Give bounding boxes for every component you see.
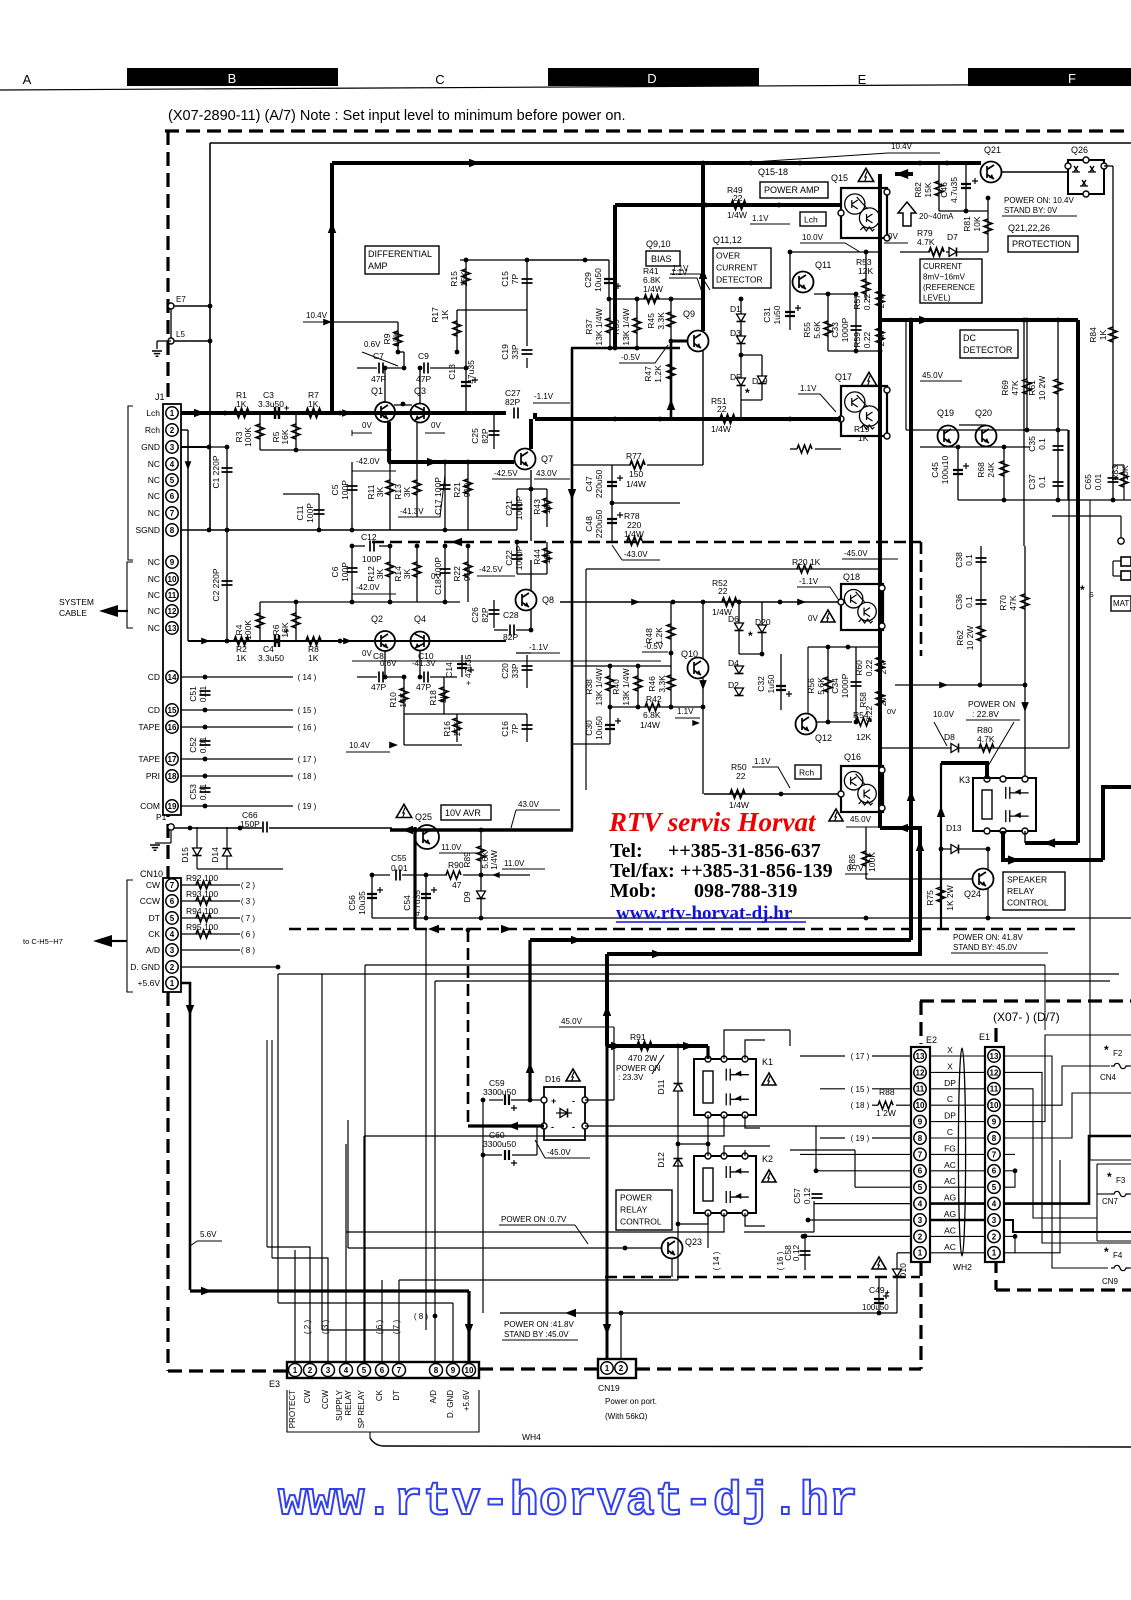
svg-text:0.01: 0.01 xyxy=(1093,473,1103,490)
svg-text:6: 6 xyxy=(380,1366,385,1375)
dashed border D/7 bottom xyxy=(996,1288,1131,1291)
10.4V rail vertical xyxy=(330,163,334,413)
svg-text:7P: 7P xyxy=(510,723,520,734)
svg-text:A/D: A/D xyxy=(429,1390,438,1404)
svg-text:Q23: Q23 xyxy=(685,1237,702,1247)
svg-text:D14: D14 xyxy=(210,847,220,863)
svg-text:K1: K1 xyxy=(762,1057,773,1067)
svg-text:C48: C48 xyxy=(584,516,594,532)
svg-text:C32: C32 xyxy=(756,676,766,692)
svg-text:R88: R88 xyxy=(879,1087,895,1097)
P1 wire xyxy=(174,827,262,829)
svg-text:TAPE: TAPE xyxy=(138,722,160,732)
svg-text:C55: C55 xyxy=(391,853,407,863)
svg-text:C14: C14 xyxy=(444,662,454,678)
Q1 emitter thick wire xyxy=(387,422,391,462)
box 10V AVR xyxy=(441,805,491,820)
rail y974 xyxy=(278,973,1119,975)
svg-text:(With 56kΩ): (With 56kΩ) xyxy=(605,1412,648,1421)
svg-text:CURRENT: CURRENT xyxy=(716,263,758,273)
svg-text:8: 8 xyxy=(170,526,175,535)
svg-text:5: 5 xyxy=(918,1183,923,1192)
svg-text:0.22: 0.22 xyxy=(862,293,872,310)
svg-text:Q9,10: Q9,10 xyxy=(646,239,671,249)
svg-text:1/4W: 1/4W xyxy=(643,284,663,294)
svg-text:C28: C28 xyxy=(503,610,519,620)
svg-text:11.0V: 11.0V xyxy=(441,843,462,852)
E2 pin 6 xyxy=(914,1165,926,1177)
dashed riser to -45V bus xyxy=(467,930,470,1127)
J1 pin 1 Lch xyxy=(166,407,178,419)
svg-text:R38: R38 xyxy=(584,679,594,695)
svg-text:C49: C49 xyxy=(869,1285,885,1295)
svg-text:: 23.3V: : 23.3V xyxy=(618,1073,644,1082)
svg-text:AMP: AMP xyxy=(368,261,388,271)
svg-text:8: 8 xyxy=(434,1366,439,1375)
rail y965 xyxy=(365,964,1045,966)
thick feed to K3 coil xyxy=(941,763,987,779)
svg-text:D12: D12 xyxy=(656,1152,666,1168)
svg-text:Tel/fax: ++385-31-856-139: Tel/fax: ++385-31-856-139 xyxy=(610,860,833,882)
svg-text:F4: F4 xyxy=(1113,1251,1123,1260)
svg-text:4.7K: 4.7K xyxy=(977,734,995,744)
svg-text:R54: R54 xyxy=(853,710,869,720)
svg-text:( 18 ): ( 18 ) xyxy=(298,772,317,781)
CN19 riser xyxy=(606,1046,609,1359)
svg-text:WH2: WH2 xyxy=(953,1262,972,1272)
R50 bus xyxy=(704,793,841,795)
svg-text:-1.1V: -1.1V xyxy=(534,392,554,401)
svg-text:7: 7 xyxy=(170,881,175,890)
svg-text:AC: AC xyxy=(944,1160,956,1170)
svg-text:100P: 100P xyxy=(362,554,382,564)
svg-text:16K: 16K xyxy=(280,622,290,637)
svg-text:1u50: 1u50 xyxy=(772,305,782,324)
svg-text:*: * xyxy=(1107,1170,1112,1184)
dc area frame xyxy=(906,429,1068,431)
svg-text:C51: C51 xyxy=(188,686,198,702)
E2 pin7 left wire xyxy=(800,1153,911,1155)
svg-text:10.4V: 10.4V xyxy=(891,142,913,151)
svg-text:C29: C29 xyxy=(583,272,593,288)
svg-text:4: 4 xyxy=(992,1199,997,1208)
svg-text:R84: R84 xyxy=(1088,327,1098,343)
svg-text:AC: AC xyxy=(944,1242,956,1252)
svg-text:10u50: 10u50 xyxy=(594,716,604,740)
drop x278 lower xyxy=(277,974,279,1303)
svg-text:DT: DT xyxy=(392,1390,401,1401)
E3 pin 6 xyxy=(376,1364,389,1377)
svg-text:C9: C9 xyxy=(418,351,429,361)
J1 bracket pins 9-13 xyxy=(127,562,133,628)
svg-text:Q11: Q11 xyxy=(815,260,831,270)
thick to edge connector xyxy=(1103,787,1131,860)
svg-text:PRI: PRI xyxy=(146,771,160,781)
svg-text:4: 4 xyxy=(170,460,175,469)
J1 pin 2 Rch xyxy=(166,424,178,436)
svg-text:R15: R15 xyxy=(449,271,459,287)
svg-text:6: 6 xyxy=(170,492,175,501)
svg-text:3: 3 xyxy=(170,443,175,452)
speaker terminals xyxy=(1121,557,1131,566)
svg-text:13: 13 xyxy=(168,624,177,633)
R91 bus thick xyxy=(607,1044,708,1048)
svg-text:14: 14 xyxy=(168,673,177,682)
svg-text:CN9: CN9 xyxy=(1102,1277,1119,1286)
J1 pin 10 NC xyxy=(166,573,178,585)
svg-text:10.4V: 10.4V xyxy=(306,311,328,320)
thick out bottom K3 xyxy=(1003,831,1103,860)
svg-text:K3: K3 xyxy=(959,775,970,785)
svg-text:TAPE: TAPE xyxy=(138,754,160,764)
svg-text:3K: 3K xyxy=(375,568,385,579)
bus to Q7 xyxy=(389,460,514,464)
WH4 curve xyxy=(369,1432,371,1438)
svg-text:2: 2 xyxy=(308,1366,313,1375)
svg-text:( 19 ): ( 19 ) xyxy=(851,1134,870,1143)
thick rail to K3 right xyxy=(1025,841,1078,845)
dashed border right riser to E2 xyxy=(919,1262,922,1369)
svg-text:1K 2W: 1K 2W xyxy=(945,885,955,911)
svg-text:Q15: Q15 xyxy=(831,173,848,183)
svg-text:15K: 15K xyxy=(923,182,933,197)
E1 pin 3 xyxy=(988,1214,1000,1226)
cn10 arrow xyxy=(93,935,112,947)
svg-text:24K: 24K xyxy=(986,462,996,477)
svg-text:10: 10 xyxy=(168,575,177,584)
svg-text:R77: R77 xyxy=(626,451,642,461)
svg-text:*: * xyxy=(745,386,750,400)
CN10 bracket xyxy=(127,880,133,992)
svg-text:0V: 0V xyxy=(431,421,441,430)
svg-text:R39: R39 xyxy=(611,319,621,335)
svg-text:47K: 47K xyxy=(1008,595,1018,610)
svg-text:2: 2 xyxy=(992,1232,997,1241)
Q10 collector drop xyxy=(702,602,704,658)
svg-text:-1.1V: -1.1V xyxy=(799,577,819,586)
svg-text:Q15-18: Q15-18 xyxy=(758,167,788,177)
svg-text:3: 3 xyxy=(326,1366,331,1375)
svg-text:COM: COM xyxy=(140,801,160,811)
svg-text:POWER ON: 10.4V: POWER ON: 10.4V xyxy=(1004,196,1074,205)
svg-text:PROTECT: PROTECT xyxy=(288,1390,297,1428)
E1 pin11 wire xyxy=(1003,1089,1097,1218)
svg-text:D16: D16 xyxy=(545,1074,561,1084)
svg-text:F2: F2 xyxy=(1113,1049,1123,1058)
E1 pin7 wire xyxy=(1003,1153,1015,1155)
E1 pin12 wire xyxy=(1003,1072,1131,1243)
svg-text:C: C xyxy=(435,72,444,87)
Q12 cell top rail xyxy=(808,646,880,648)
svg-text:13K 1/4W: 13K 1/4W xyxy=(594,308,604,345)
svg-text:0.12: 0.12 xyxy=(791,1244,801,1261)
J1 pin 16 TAPE xyxy=(166,721,178,733)
E3 pin9 drop xyxy=(452,1303,454,1363)
svg-text:47P: 47P xyxy=(371,682,386,692)
header bar F xyxy=(968,68,1131,86)
box MAT xyxy=(1111,596,1131,611)
svg-text:( 14 ): ( 14 ) xyxy=(712,1251,721,1270)
right rail verticals xyxy=(1023,320,1025,546)
svg-text:PROTECTION: PROTECTION xyxy=(1012,239,1071,249)
svg-text:to C-H5~H7: to C-H5~H7 xyxy=(23,937,63,946)
svg-text:R95 100: R95 100 xyxy=(186,922,218,932)
E1 pin1 wire xyxy=(1015,1160,1060,1253)
svg-text:1/4W: 1/4W xyxy=(711,424,731,434)
svg-text:AG: AG xyxy=(944,1193,956,1203)
dashed border CN19 to corner xyxy=(636,1367,921,1370)
svg-text:Rch: Rch xyxy=(145,425,160,435)
dashed border E3 to CN19 xyxy=(479,1367,598,1370)
svg-text:( 19 ): ( 19 ) xyxy=(298,802,317,811)
E1 pin 2 xyxy=(988,1230,1000,1242)
vertical from C9 to R15 rail xyxy=(465,260,467,368)
svg-text:5.6K: 5.6K xyxy=(816,677,826,695)
vertical bias rail xyxy=(701,163,705,331)
svg-text:11.0V: 11.0V xyxy=(504,859,525,868)
ground at L5 xyxy=(156,341,158,349)
svg-text:0.1: 0.1 xyxy=(964,596,974,608)
svg-text:1K: 1K xyxy=(308,653,319,663)
svg-text:R68: R68 xyxy=(976,462,986,478)
svg-text:STAND BY: 45.0V: STAND BY: 45.0V xyxy=(953,943,1018,952)
svg-text:D9: D9 xyxy=(462,891,472,902)
J1 pin 17 TAPE xyxy=(166,753,178,765)
svg-text:C: C xyxy=(947,1127,953,1137)
svg-text:CW: CW xyxy=(146,880,160,890)
svg-text:R92 100: R92 100 xyxy=(186,873,218,883)
svg-text:(X07- ) (D/7): (X07- ) (D/7) xyxy=(993,1010,1060,1024)
dashed border E1 top stub xyxy=(994,1028,997,1046)
svg-text:R61: R61 xyxy=(1027,380,1037,396)
svg-text:( 15 ): ( 15 ) xyxy=(298,706,317,715)
svg-text:( 7 ): ( 7 ) xyxy=(392,1320,401,1335)
svg-text:11: 11 xyxy=(916,1085,925,1094)
svg-text:13K 1/4W: 13K 1/4W xyxy=(621,668,631,705)
E1 pin13 wire to CN9 riser xyxy=(1003,1056,1108,1268)
svg-text:FG: FG xyxy=(944,1143,956,1153)
left drop from R20 wire xyxy=(585,569,587,790)
svg-text:0V: 0V xyxy=(362,649,372,658)
svg-text:NC: NC xyxy=(148,475,160,485)
svg-text:C47: C47 xyxy=(584,476,594,492)
svg-text:R89: R89 xyxy=(462,852,472,868)
svg-text:45.0V: 45.0V xyxy=(561,1017,583,1026)
svg-text:-0.5V: -0.5V xyxy=(621,353,641,362)
diode D8 wire xyxy=(880,747,1069,749)
CURRENT reference box xyxy=(920,259,982,303)
connector J1 outline xyxy=(163,404,181,815)
top 10.4V bus xyxy=(332,161,981,165)
svg-text:D. GND: D. GND xyxy=(446,1390,455,1418)
svg-text:7P: 7P xyxy=(510,273,520,284)
bias top rail xyxy=(609,298,703,300)
svg-text:22: 22 xyxy=(718,586,728,596)
connector E2 outline xyxy=(911,1047,930,1262)
A/D wire hook 8 xyxy=(181,949,240,951)
svg-text:( 8 ): ( 8 ) xyxy=(414,1312,429,1321)
CN10 pin 6 CCW xyxy=(166,895,178,907)
Rch bus xyxy=(188,640,506,642)
J1 pin 14 CD xyxy=(166,671,178,683)
svg-text:OVER: OVER xyxy=(716,251,740,261)
wire E7 to ground rail xyxy=(174,305,210,307)
svg-text:R69: R69 xyxy=(1000,380,1010,396)
svg-text:C33: C33 xyxy=(830,322,840,338)
svg-text:9: 9 xyxy=(170,558,175,567)
svg-text:11: 11 xyxy=(168,591,177,600)
E1 pin 7 xyxy=(988,1148,1000,1160)
K2 bottom wires xyxy=(707,1213,709,1248)
svg-text:Rch: Rch xyxy=(799,768,814,778)
svg-text:1: 1 xyxy=(293,1366,298,1375)
svg-text:R94 100: R94 100 xyxy=(186,906,218,916)
svg-text:4.7u35: 4.7u35 xyxy=(949,177,959,203)
svg-text:3300u50: 3300u50 xyxy=(483,1139,516,1149)
svg-text:R56: R56 xyxy=(806,678,816,694)
dashed border bottom-left to E3 xyxy=(168,1369,287,1372)
svg-text:R60: R60 xyxy=(854,660,864,676)
svg-text:-45.0V: -45.0V xyxy=(844,549,868,558)
svg-text:3.3K: 3.3K xyxy=(656,312,666,330)
dashed border top xyxy=(165,129,1131,132)
svg-text:*: * xyxy=(1104,1245,1109,1259)
svg-text:0.6V: 0.6V xyxy=(364,340,381,349)
svg-text:R82: R82 xyxy=(913,182,923,198)
svg-text:1000P: 1000P xyxy=(840,317,850,342)
svg-text:C38: C38 xyxy=(954,552,964,568)
svg-text:0.1: 0.1 xyxy=(964,554,974,566)
svg-text:L5: L5 xyxy=(176,330,185,339)
svg-text:J1: J1 xyxy=(155,392,165,402)
svg-text:12: 12 xyxy=(916,1068,925,1077)
rail y981 xyxy=(435,980,1110,982)
svg-text:6: 6 xyxy=(918,1167,923,1176)
svg-text:2: 2 xyxy=(170,426,175,435)
svg-text:GND: GND xyxy=(141,442,160,452)
E1 pin 6 xyxy=(988,1165,1000,1177)
POWER ON 41.8 thick wire xyxy=(412,929,414,939)
E1 pin 13 xyxy=(988,1050,1000,1062)
wires to speaker xyxy=(1120,516,1122,538)
E2 pin 7 xyxy=(914,1148,926,1160)
svg-text:DC: DC xyxy=(963,333,976,343)
C29 rail xyxy=(530,259,609,261)
svg-text:3: 3 xyxy=(170,946,175,955)
J1 pin 13 NC xyxy=(166,622,178,634)
svg-text:C: C xyxy=(947,1094,953,1104)
svg-text:1: 1 xyxy=(170,409,175,418)
svg-text:R37: R37 xyxy=(584,319,594,335)
svg-text:D: D xyxy=(647,71,656,86)
svg-text:1K: 1K xyxy=(440,309,450,320)
E1 pin 9 xyxy=(988,1115,1000,1127)
svg-text:( 17 ): ( 17 ) xyxy=(298,755,317,764)
svg-text:16K: 16K xyxy=(280,429,290,444)
dc detector outline xyxy=(905,320,907,430)
svg-text:A: A xyxy=(23,72,32,87)
svg-text:LEVEL): LEVEL) xyxy=(923,294,951,303)
connector CN10 outline xyxy=(163,878,181,992)
svg-text:+5.6V: +5.6V xyxy=(462,1389,471,1411)
J1 pin 5 NC xyxy=(166,474,178,486)
svg-text:0V: 0V xyxy=(808,614,818,623)
svg-text:45.0V: 45.0V xyxy=(922,371,944,380)
E2 pin 9 xyxy=(914,1115,926,1127)
svg-text:+5.6V: +5.6V xyxy=(138,978,161,988)
svg-text:E3: E3 xyxy=(269,1379,280,1389)
svg-text:RTV servis Horvat: RTV servis Horvat xyxy=(608,807,817,837)
svg-text:( 2 ): ( 2 ) xyxy=(303,1320,312,1335)
svg-text:100u10: 100u10 xyxy=(940,456,950,485)
Q7 emitter lower xyxy=(530,470,532,541)
svg-text:DIFFERENTIAL: DIFFERENTIAL xyxy=(368,249,432,259)
svg-text:8: 8 xyxy=(918,1134,923,1143)
F3 area frame xyxy=(1096,1164,1098,1241)
svg-text:1000P: 1000P xyxy=(840,673,850,698)
svg-text:16: 16 xyxy=(168,723,177,732)
E1 pin3 thick AG wire xyxy=(930,1219,985,1222)
svg-text:4: 4 xyxy=(170,930,175,939)
E1 pin2 jumper xyxy=(1003,1235,1015,1237)
pin3 GND wire xyxy=(181,446,209,448)
svg-text:Q7: Q7 xyxy=(541,454,553,464)
svg-text:-42.0V: -42.0V xyxy=(356,457,380,466)
svg-text:C15: C15 xyxy=(500,271,510,287)
svg-text:47P: 47P xyxy=(371,374,386,384)
E2 pin 12 xyxy=(914,1066,926,1078)
E1 pin 5 xyxy=(988,1181,1000,1193)
feed to R9 xyxy=(332,321,398,323)
svg-text:POWER ON :0.7V: POWER ON :0.7V xyxy=(501,1215,567,1224)
svg-text:0.22: 0.22 xyxy=(864,659,874,676)
svg-text:1.1V: 1.1V xyxy=(754,757,771,766)
svg-text:Q24: Q24 xyxy=(964,889,981,899)
svg-text:47: 47 xyxy=(452,880,462,890)
svg-text:-: - xyxy=(572,1096,575,1106)
svg-text:33P: 33P xyxy=(510,663,520,678)
R4/R6 top rail xyxy=(260,601,296,603)
svg-text:R43: R43 xyxy=(532,499,542,515)
svg-text:1000P: 1000P xyxy=(514,545,524,570)
svg-text:82P: 82P xyxy=(505,397,520,407)
svg-text:C7: C7 xyxy=(373,351,384,361)
Q1 collector wire xyxy=(384,368,386,402)
J1 pin 4 NC xyxy=(166,458,178,470)
svg-text:150: 150 xyxy=(629,469,643,479)
E2 pin 3 xyxy=(914,1214,926,1226)
svg-text:6.8K: 6.8K xyxy=(643,710,661,720)
svg-text:CONTROL: CONTROL xyxy=(1007,898,1049,908)
svg-text:Q9: Q9 xyxy=(683,309,695,319)
svg-text:SYSTEM: SYSTEM xyxy=(59,597,94,607)
svg-text:6: 6 xyxy=(170,897,175,906)
SGND bus pin8 xyxy=(181,529,517,531)
svg-text:R21: R21 xyxy=(452,482,462,498)
E2 left wires xyxy=(816,1170,911,1172)
box BIAS xyxy=(646,251,680,266)
Q24 wires xyxy=(987,849,989,869)
svg-text:C53: C53 xyxy=(188,784,198,800)
svg-text:STAND BY :45.0V: STAND BY :45.0V xyxy=(504,1330,569,1339)
dashed signal bus mid xyxy=(372,541,921,544)
svg-text:1K: 1K xyxy=(858,433,869,443)
svg-text:+: + xyxy=(551,1096,556,1106)
CD pin14 wire xyxy=(181,676,293,678)
svg-text:17: 17 xyxy=(168,755,177,764)
svg-text:CN10: CN10 xyxy=(140,869,163,879)
svg-text:C36: C36 xyxy=(954,594,964,610)
